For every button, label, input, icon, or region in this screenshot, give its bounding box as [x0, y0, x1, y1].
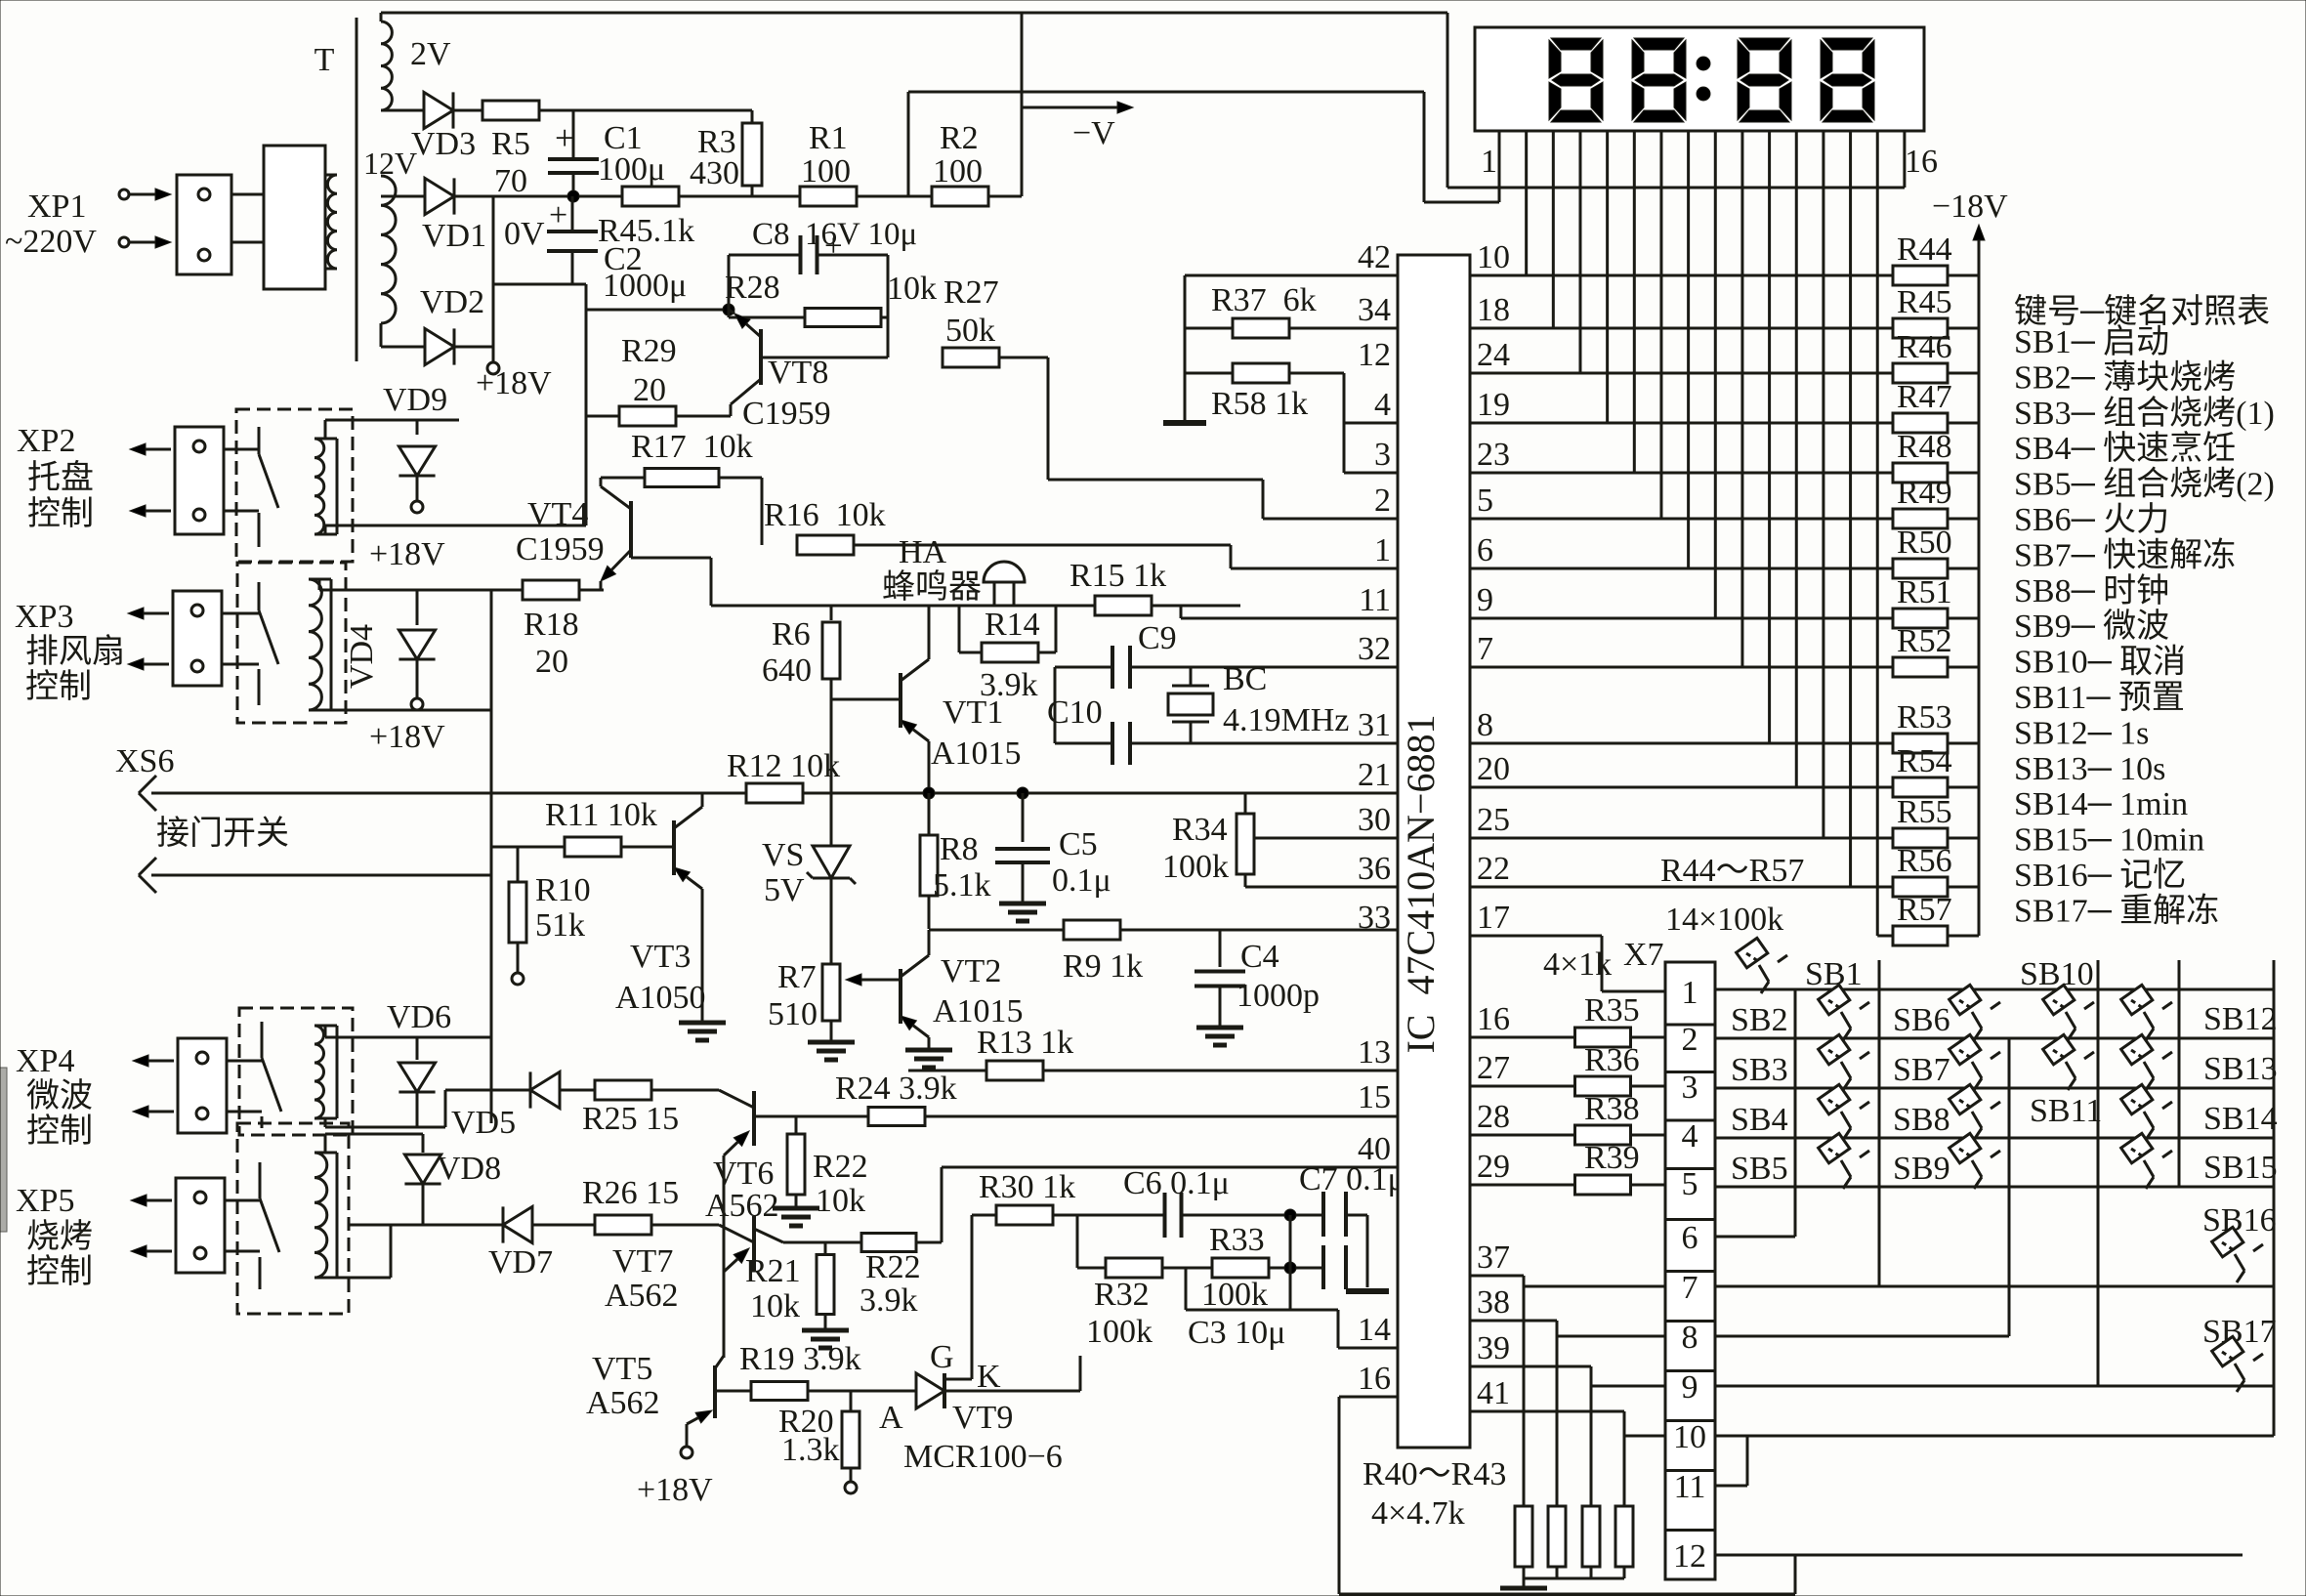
- transistor VT7 A562: [752, 1216, 756, 1271]
- capacitor C8: [799, 235, 803, 274]
- svg-text:37: 37: [1477, 1239, 1510, 1276]
- display pin 5 wire: [1606, 131, 1609, 423]
- key switch glyph: [1819, 1133, 1869, 1189]
- svg-text:蜂鸣器: 蜂鸣器: [882, 568, 982, 606]
- svg-text:SB15─ 10min: SB15─ 10min: [2014, 822, 2204, 859]
- svg-text:R19 3.9k: R19 3.9k: [739, 1341, 861, 1377]
- keypad column E: [2178, 960, 2181, 1187]
- wire XP1 to primary top: [231, 193, 264, 196]
- wire XP1 input bottom: [130, 241, 155, 244]
- svg-text:4: 4: [1374, 387, 1391, 423]
- svg-text:SB9: SB9: [1893, 1151, 1950, 1187]
- keypad row 2 wire: [1715, 1037, 2274, 1040]
- wire VT4 base: [631, 557, 711, 560]
- svg-text:19: 19: [1477, 387, 1510, 423]
- resistor R41: [1556, 1321, 1559, 1506]
- resistor R50: [1470, 567, 1894, 570]
- svg-text:R22: R22: [813, 1149, 868, 1185]
- wire node to R28: [729, 316, 805, 319]
- wire X7 pin10 row: [1624, 1435, 1665, 1438]
- display pin wires: [1498, 131, 1501, 202]
- wire VT6 collector row to R24: [754, 1115, 868, 1118]
- svg-text:16: 16: [1358, 1361, 1391, 1397]
- diode VD2: [381, 346, 425, 349]
- svg-text:C6 0.1μ: C6 0.1μ: [1123, 1165, 1230, 1201]
- svg-text:IC 47C410AN−6881: IC 47C410AN−6881: [1399, 714, 1443, 1053]
- svg-text:24: 24: [1477, 337, 1510, 373]
- wire XP1 to primary bottom: [231, 241, 264, 244]
- svg-text:100k: 100k: [1086, 1314, 1153, 1350]
- svg-text:R35: R35: [1584, 992, 1640, 1029]
- svg-text:22: 22: [1477, 851, 1510, 887]
- resistor R43: [1623, 1411, 1626, 1506]
- svg-text:R44: R44: [1897, 231, 1952, 268]
- thyristor VT9 MCR100-6: [916, 1373, 944, 1408]
- wire R32 junction down to C3 row: [1185, 1268, 1188, 1310]
- svg-text:70: 70: [494, 163, 527, 199]
- svg-text:HA: HA: [899, 534, 947, 570]
- svg-text:SB5: SB5: [1731, 1151, 1788, 1187]
- svg-text:R13 1k: R13 1k: [977, 1025, 1073, 1061]
- svg-text:34: 34: [1358, 292, 1391, 328]
- resistor R32 100k: [1077, 1267, 1106, 1270]
- svg-text:3: 3: [1374, 437, 1391, 473]
- wire VD3 to R5: [452, 109, 482, 112]
- svg-text:SB12: SB12: [2203, 1001, 2278, 1037]
- key switch glyph: [1819, 985, 1869, 1040]
- wire X7 pin9 row: [1591, 1385, 1665, 1388]
- svg-text:36: 36: [1358, 851, 1391, 887]
- resistor R37 6k: [1233, 318, 1289, 338]
- resistor R51: [1470, 617, 1894, 620]
- svg-text:控制: 控制: [25, 668, 92, 705]
- svg-text:SB15: SB15: [2203, 1150, 2278, 1186]
- svg-text:14×100k: 14×100k: [1665, 902, 1783, 938]
- svg-text:R47: R47: [1897, 379, 1952, 415]
- resistor R10 51k vertical: [517, 847, 520, 881]
- arrow XP3 out bottom: [144, 663, 169, 666]
- svg-text:SB5─ 组合烧烤(2): SB5─ 组合烧烤(2): [2014, 466, 2275, 503]
- resistor R56: [1470, 886, 1894, 889]
- svg-text:10: 10: [1673, 1419, 1706, 1455]
- resistor R12 10k: [746, 783, 803, 803]
- resistor R5: [482, 101, 539, 120]
- svg-text:MCR100−6: MCR100−6: [903, 1439, 1063, 1475]
- svg-text:29: 29: [1477, 1149, 1510, 1185]
- svg-text:R33: R33: [1209, 1222, 1265, 1258]
- resistor R34 100k vertical: [1244, 793, 1247, 813]
- svg-text:X7: X7: [1623, 937, 1664, 973]
- wire VT2 base arrow to R7: [861, 979, 901, 982]
- svg-text:R26 15: R26 15: [582, 1175, 679, 1211]
- wire C2 to R28 node rail: [586, 309, 729, 312]
- node 2V bottom to VD3: [381, 109, 423, 112]
- svg-text:R29: R29: [621, 333, 677, 369]
- wire R37 R58 left riser: [1184, 275, 1187, 423]
- svg-text:SB8: SB8: [1893, 1102, 1950, 1138]
- svg-text:−18V: −18V: [1932, 189, 2008, 225]
- resistor R49: [1470, 518, 1894, 521]
- resistor R6 640 vertical: [830, 606, 833, 620]
- svg-text:排风扇: 排风扇: [25, 633, 125, 670]
- svg-text:R1: R1: [809, 120, 848, 156]
- wire X7 pin8 row: [1557, 1335, 1665, 1338]
- wire VD5 to R25: [560, 1089, 596, 1092]
- wire node riser C6 C7: [1289, 1215, 1292, 1310]
- wire R6 to VT1 base: [831, 698, 901, 701]
- svg-text:1.3k: 1.3k: [781, 1432, 840, 1468]
- svg-text:VD2: VD2: [420, 284, 484, 320]
- key switch glyph: [1950, 1084, 2000, 1140]
- wire C7 right to ground: [1346, 1214, 1367, 1217]
- resistor R24 3.9k: [868, 1108, 925, 1126]
- display pin 8 wire: [1687, 131, 1690, 568]
- wire VT1 collector up to rail: [928, 606, 931, 659]
- diode VD1: [381, 195, 425, 198]
- connector X7 cell divider: [1665, 1270, 1715, 1273]
- svg-text:VT4: VT4: [527, 496, 588, 532]
- svg-text:SB3: SB3: [1731, 1052, 1788, 1088]
- svg-text:R53: R53: [1897, 699, 1952, 735]
- wire pin21 row (R12 row): [491, 792, 1398, 795]
- plug XP3 exhaust fan control: [173, 591, 222, 686]
- wire R58 riser pins 4 3: [1343, 373, 1346, 473]
- ground R7: [830, 1021, 833, 1042]
- wire buzzer rail top: [710, 558, 713, 606]
- wire VT3 emitter ground: [701, 889, 704, 1023]
- svg-text:13: 13: [1358, 1034, 1391, 1071]
- svg-text:C3 10μ: C3 10μ: [1188, 1315, 1285, 1351]
- svg-text:8: 8: [1682, 1320, 1698, 1356]
- svg-text:VD3: VD3: [411, 126, 476, 162]
- svg-text:SB7: SB7: [1893, 1052, 1950, 1088]
- svg-text:SB14─ 1min: SB14─ 1min: [2014, 786, 2188, 822]
- svg-text:SB2─ 薄块烧烤: SB2─ 薄块烧烤: [2014, 358, 2236, 396]
- wire XS6 riser: [490, 590, 493, 1123]
- keypad column D: [2097, 960, 2100, 1386]
- wire R28 top rail: [729, 254, 801, 257]
- svg-text:R34: R34: [1172, 812, 1228, 848]
- display pin 3 wire: [1552, 131, 1555, 328]
- transformer T primary housing: [264, 146, 325, 289]
- wire C2 bottom to 0V rail: [493, 283, 586, 286]
- wire relay K2 coil bottom: [319, 709, 491, 712]
- wire VD2 to +18V terminal: [454, 346, 493, 349]
- wire VD5 row: [445, 1089, 530, 1092]
- svg-text:C10: C10: [1047, 694, 1103, 731]
- resistor R48: [1470, 472, 1894, 475]
- svg-text:32: 32: [1358, 631, 1391, 667]
- svg-text:SB3─ 组合烧烤(1): SB3─ 组合烧烤(1): [2014, 395, 2275, 432]
- display digit 1: [1549, 38, 1603, 122]
- svg-text:4: 4: [1682, 1118, 1698, 1155]
- svg-text:1000μ: 1000μ: [603, 268, 687, 304]
- svg-text:VS: VS: [762, 837, 804, 873]
- display pin 14 wire: [1849, 131, 1852, 887]
- keypad row 5 wire: [1715, 1186, 2274, 1189]
- svg-text:2: 2: [1374, 483, 1391, 519]
- svg-text:VT9: VT9: [952, 1400, 1013, 1436]
- wire XS6 lower: [151, 874, 491, 877]
- key switch glyph: [1819, 1084, 1869, 1140]
- resistor R40: [1523, 1276, 1526, 1506]
- wire VT2 collector row pin33: [929, 929, 1064, 932]
- relay K2 contact: [258, 582, 261, 610]
- capacitor C5 0.1u: [1022, 793, 1025, 842]
- wire R4 to R3: [679, 195, 800, 198]
- keypad row 1 wire: [1715, 988, 2274, 991]
- resistor R52: [1470, 666, 1894, 669]
- svg-text:7: 7: [1477, 631, 1493, 667]
- resistor R39: [1470, 1184, 1575, 1187]
- plug XP1: [177, 175, 231, 274]
- svg-text:15: 15: [1358, 1079, 1391, 1115]
- connector X7 cell divider: [1665, 1369, 1715, 1372]
- wire C3 row to pin14 row: [1337, 1310, 1340, 1348]
- svg-text:R49: R49: [1897, 475, 1952, 511]
- transistor VT2 A1015: [899, 969, 902, 1024]
- svg-text:A562: A562: [605, 1278, 679, 1314]
- svg-text:SB12─ 1s: SB12─ 1s: [2014, 715, 2149, 751]
- svg-text:R2: R2: [940, 120, 979, 156]
- relay K3 dashed box: [239, 1008, 353, 1135]
- svg-text:VT1: VT1: [943, 694, 1003, 731]
- svg-text:R50: R50: [1897, 525, 1952, 561]
- svg-text:R10: R10: [535, 872, 591, 908]
- resistor R1: [800, 187, 857, 206]
- key switch glyph: [2121, 1084, 2172, 1140]
- wire relay K4 bottom rail: [325, 1277, 391, 1280]
- svg-text:30: 30: [1358, 802, 1391, 838]
- svg-text:SB10: SB10: [2020, 956, 2094, 992]
- wire common emitter vertical: [723, 1155, 726, 1358]
- svg-text:41: 41: [1477, 1375, 1510, 1411]
- wire VT8 base: [761, 357, 888, 359]
- transistor VT8 C1959: [759, 329, 763, 385]
- wire riser to VD5 row: [444, 1090, 447, 1127]
- svg-text:5.1k: 5.1k: [933, 867, 991, 903]
- svg-text:11: 11: [1359, 582, 1391, 618]
- svg-text:8: 8: [1477, 707, 1493, 743]
- wire VT9 gate riser: [971, 1215, 974, 1379]
- connector X7 cell divider: [1665, 1071, 1715, 1073]
- svg-text:XP5: XP5: [16, 1183, 74, 1219]
- wire IC pin41 row: [1470, 1410, 1624, 1413]
- svg-text:G: G: [930, 1339, 954, 1375]
- svg-text:100: 100: [801, 153, 851, 189]
- resistor R33 100k: [1212, 1258, 1269, 1278]
- wire R24 to IC pin15: [925, 1115, 1398, 1118]
- arrow XP2 out top: [146, 448, 171, 451]
- connector X7 cell divider: [1665, 1529, 1715, 1532]
- wire IC pin16 bottom row: [1339, 1396, 1398, 1399]
- svg-text:VT8: VT8: [768, 355, 828, 391]
- relay K1 coil: [314, 439, 324, 534]
- svg-text:SB1─ 启动: SB1─ 启动: [2014, 323, 2169, 360]
- svg-text:R46: R46: [1897, 329, 1952, 365]
- svg-text:12: 12: [1358, 337, 1391, 373]
- svg-text:BC: BC: [1223, 661, 1267, 697]
- svg-text:C4: C4: [1240, 939, 1279, 975]
- keypad row 3 wire: [1715, 1087, 2274, 1090]
- svg-text:SB2: SB2: [1731, 1002, 1788, 1038]
- svg-text:31: 31: [1358, 707, 1391, 743]
- svg-text:XP3: XP3: [15, 599, 73, 635]
- svg-text:SB14: SB14: [2203, 1101, 2278, 1137]
- display pin 10 wire: [1740, 131, 1743, 667]
- resistor R11 10k: [491, 846, 565, 849]
- svg-text:R38: R38: [1584, 1091, 1640, 1127]
- svg-text:R7: R7: [777, 959, 817, 995]
- resistor R20 1.3k vertical: [850, 1391, 853, 1411]
- arrow XP5 out bottom: [147, 1250, 172, 1253]
- svg-text:9: 9: [1682, 1369, 1698, 1406]
- wire R18 to VT4 emitter: [579, 589, 604, 592]
- svg-text:R22: R22: [865, 1249, 921, 1285]
- relay K3 contact: [261, 1022, 264, 1058]
- svg-text:1000p: 1000p: [1237, 978, 1320, 1014]
- display frame: [1475, 27, 1924, 131]
- svg-text:XP1: XP1: [27, 189, 86, 225]
- wire relay K2 coil top to R18 row: [318, 579, 321, 590]
- wire VT5 emitter to +18V: [686, 1424, 689, 1446]
- wire R40-43 bottom rail: [1524, 1577, 1624, 1580]
- wire R9 to IC pin33: [1120, 929, 1398, 932]
- svg-text:R44〜R57: R44〜R57: [1660, 853, 1804, 889]
- resistor R27 50k: [943, 348, 999, 367]
- svg-text:C1959: C1959: [516, 531, 605, 567]
- svg-text:R12 10k: R12 10k: [727, 748, 840, 784]
- transistor VT6 A562: [752, 1091, 756, 1146]
- wire R30 junction down to R32: [1076, 1215, 1079, 1268]
- svg-text:R25 15: R25 15: [582, 1101, 679, 1137]
- transistor VT3 A1050: [672, 820, 676, 875]
- capacitor C6 0.1u: [1163, 1193, 1167, 1238]
- svg-text:0.1μ: 0.1μ: [1052, 862, 1111, 899]
- resistor R16 10k: [797, 535, 854, 555]
- node C6 C7: [1284, 1209, 1296, 1221]
- display colon: [1697, 57, 1710, 70]
- relay K4 dashed box: [237, 1123, 349, 1314]
- resistor R13 1k: [908, 1070, 986, 1072]
- transistor VT1 A1015: [899, 673, 902, 728]
- resistor R57: [1470, 935, 1602, 938]
- svg-text:10: 10: [1477, 239, 1510, 275]
- key SB1 switch: [1737, 938, 1787, 993]
- wire relay K1 coil top rail: [324, 420, 327, 439]
- svg-text:R48: R48: [1897, 429, 1952, 465]
- wire VT1 emitter down to pin21 row: [928, 741, 931, 793]
- svg-text:6: 6: [1682, 1220, 1698, 1256]
- svg-text:100: 100: [933, 153, 983, 189]
- node R28 left: [723, 304, 734, 315]
- svg-text:A562: A562: [586, 1385, 660, 1421]
- svg-text:3: 3: [1682, 1070, 1698, 1106]
- svg-text:R18: R18: [524, 607, 579, 643]
- wire R1 to R2: [857, 195, 932, 198]
- connector X7 cell divider: [1665, 1419, 1715, 1422]
- svg-text:VD6: VD6: [387, 999, 451, 1035]
- wire VD7 to R26: [532, 1224, 596, 1227]
- svg-text:SB6─ 火力: SB6─ 火力: [2014, 501, 2169, 538]
- svg-text:39: 39: [1477, 1330, 1510, 1366]
- svg-text:SB13: SB13: [2203, 1051, 2278, 1087]
- svg-text:R30 1k: R30 1k: [979, 1169, 1075, 1205]
- svg-text:10k: 10k: [816, 1183, 865, 1219]
- svg-text:VT3: VT3: [630, 939, 691, 975]
- plug XP4 microwave control: [178, 1038, 227, 1133]
- arrow -V: [1022, 106, 1117, 109]
- wire VT7 collector row: [754, 1229, 783, 1242]
- resistor R19 3.9k: [751, 1382, 808, 1401]
- wire relay K3 bottom rail: [324, 1118, 327, 1127]
- svg-text:R8: R8: [940, 831, 979, 867]
- keypad column A: [1794, 989, 1797, 1237]
- keypad column F: [2273, 960, 2276, 1436]
- svg-text:42: 42: [1358, 239, 1391, 275]
- svg-text:R58 1k: R58 1k: [1211, 386, 1308, 422]
- svg-text:R36: R36: [1584, 1042, 1640, 1078]
- resistor R4 5.1k: [622, 187, 679, 206]
- svg-text:VT5: VT5: [592, 1351, 652, 1387]
- capacitor C7 0.1u: [1321, 1192, 1325, 1289]
- svg-text:100k: 100k: [1201, 1277, 1268, 1313]
- svg-text:R28: R28: [725, 270, 780, 306]
- relay K1 contact: [258, 427, 261, 454]
- wire VT9 cathode row: [944, 1390, 1080, 1393]
- display pin 11 wire: [1768, 131, 1771, 743]
- resistor R14 3.9k parallel: [958, 606, 961, 652]
- wire VT2 collector: [928, 930, 931, 955]
- svg-text:0V: 0V: [504, 216, 545, 252]
- svg-text:XS6: XS6: [115, 743, 174, 779]
- wire R26 to VT7 base: [650, 1224, 719, 1227]
- svg-text:控制: 控制: [26, 1113, 93, 1150]
- svg-text:10k: 10k: [750, 1288, 800, 1324]
- svg-text:40: 40: [1358, 1131, 1391, 1167]
- svg-text:R27: R27: [943, 274, 999, 311]
- svg-text:16: 16: [1477, 1001, 1510, 1037]
- svg-text:SB7─ 快速解冻: SB7─ 快速解冻: [2014, 536, 2236, 573]
- wire R33 to node2: [1269, 1267, 1323, 1270]
- svg-text:VT2: VT2: [941, 953, 1001, 989]
- svg-text:控制: 控制: [27, 495, 94, 532]
- svg-text:SB11: SB11: [2030, 1093, 2102, 1129]
- arrow XP3 out top: [144, 612, 169, 615]
- svg-text:接门开关: 接门开关: [156, 815, 289, 852]
- wire R27 to IC pin2 path: [999, 357, 1048, 359]
- keypad column C: [2008, 1038, 2011, 1336]
- wire pin40 row: [942, 1166, 1398, 1169]
- resistor R58 1k: [1233, 363, 1289, 383]
- resistor R8 5.1k vertical: [928, 793, 931, 835]
- svg-text:R6: R6: [772, 616, 811, 652]
- svg-text:控制: 控制: [26, 1253, 93, 1290]
- svg-text:R51: R51: [1897, 574, 1952, 610]
- svg-text:+18V: +18V: [476, 365, 552, 401]
- ground R40-43: [1523, 1578, 1526, 1586]
- wire IC pin17 to X7 pin1: [1601, 936, 1604, 991]
- wire relay K4 top rail: [324, 1134, 327, 1153]
- key switch glyph: [2121, 1034, 2172, 1090]
- wire R17 to R16 step: [719, 477, 762, 480]
- svg-text:A562: A562: [705, 1188, 779, 1224]
- svg-text:20: 20: [633, 372, 666, 408]
- wire X7 pin11 row: [1715, 1485, 1747, 1488]
- resistor R55: [1470, 837, 1894, 840]
- svg-text:33: 33: [1358, 900, 1391, 936]
- resistor R17 10k: [601, 477, 645, 480]
